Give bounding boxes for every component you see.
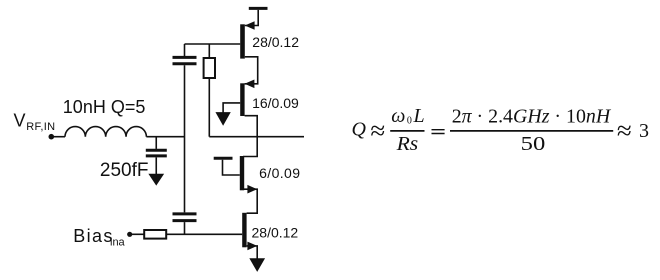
svg-text:10nH Q=5: 10nH Q=5 <box>63 97 146 117</box>
ground (M4 source) <box>250 259 264 271</box>
ground (M2 gate) <box>216 113 230 125</box>
svg-text:V: V <box>14 110 26 130</box>
svg-text:28/0.12: 28/0.12 <box>252 224 299 240</box>
wire inductor to coupling column <box>146 136 184 138</box>
wire stub above 250fF cap <box>155 137 157 149</box>
wire stub above R1 <box>208 44 210 58</box>
wire column middle (C1 to C2) <box>184 65 186 212</box>
transistor M1 28/0.12 PMOS channel <box>240 24 245 58</box>
power VDD rail (M3 gate) <box>214 157 233 160</box>
svg-text:3: 3 <box>639 120 649 142</box>
svg-text:Q: Q <box>352 119 367 141</box>
svg-text:Bias: Bias <box>73 226 114 246</box>
svg-text:Rs: Rs <box>396 133 419 155</box>
svg-text:250fF: 250fF <box>100 160 149 181</box>
resistor R2 (bias) <box>144 230 166 239</box>
svg-text:ω0L: ω0L <box>391 105 426 127</box>
capacitor C3 250fF plates <box>146 150 167 156</box>
wire PMOS gate line <box>185 43 241 45</box>
resistor R1 (feedback) <box>204 58 215 78</box>
arrow M4 source (NMOS, tip outward) <box>247 242 257 251</box>
wire M3 gate to VDD T <box>223 160 240 175</box>
formula equals <box>432 130 445 134</box>
svg-text:50: 50 <box>521 133 546 155</box>
wire M3 source down to M4 drain <box>243 189 257 213</box>
node VRF,IN terminal <box>49 134 55 140</box>
arrow M3 source (NMOS, tip outward) <box>247 185 257 194</box>
wire VDD stem <box>245 10 258 26</box>
capacitor C1 plates <box>173 57 197 63</box>
wire output line <box>209 136 304 138</box>
wire bias dot to R2 <box>132 233 145 235</box>
transistor M4 28/0.12 NMOS channel <box>242 213 246 248</box>
svg-text:28/0.12: 28/0.12 <box>252 34 299 50</box>
wire bias line to M4 gate <box>166 233 242 235</box>
svg-text:6/0.09: 6/0.09 <box>259 165 300 181</box>
svg-text:lna: lna <box>110 236 126 248</box>
wire R1 to output line <box>208 78 210 137</box>
capacitor C2 plates <box>173 214 197 221</box>
wire column lower (C2 to bias line) <box>184 222 186 234</box>
svg-text:2π · 2.4GHz · 10nH: 2π · 2.4GHz · 10nH <box>452 105 612 127</box>
transistor M2 16/0.09 PMOS channel <box>240 83 244 116</box>
wire 250fF cap to ground <box>155 157 157 174</box>
formula fraction2 bar <box>450 130 613 132</box>
ground (under 250fF) <box>149 174 163 185</box>
wire M1 drain <box>245 57 258 84</box>
svg-text:≈: ≈ <box>617 116 632 146</box>
svg-text:16/0.09: 16/0.09 <box>252 95 299 111</box>
wire M2 drain to output and M3 drain <box>243 116 257 157</box>
arrow M1 source (PMOS, tip at channel) <box>245 21 255 30</box>
wire M2 gate <box>223 103 240 113</box>
inductor L1 10nH <box>65 127 146 137</box>
formula fraction1 bar <box>390 130 424 132</box>
arrow M2 source (PMOS, tip at channel) <box>245 80 255 89</box>
transistor M3 6/0.09 NMOS channel <box>240 156 244 190</box>
svg-text:RF,IN: RF,IN <box>26 121 55 133</box>
node Bias terminal <box>127 232 132 237</box>
wire M4 source to ground <box>247 246 258 259</box>
wire input to inductor <box>54 136 66 138</box>
svg-text:≈: ≈ <box>370 116 385 146</box>
power VDD rail <box>249 7 268 10</box>
wire column upper (input node to C1) <box>184 44 186 56</box>
